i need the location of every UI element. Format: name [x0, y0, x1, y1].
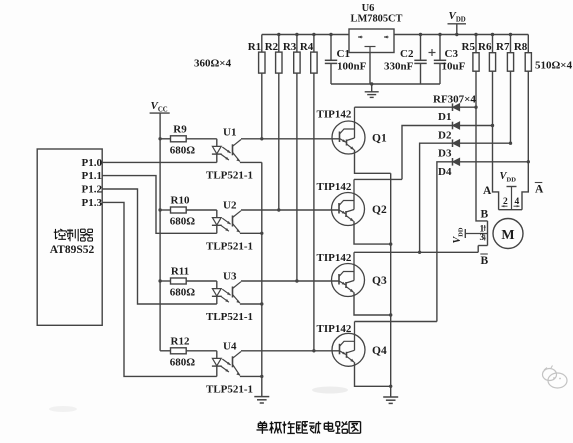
label VCC	[151, 100, 168, 114]
resistor R12 680 ohm	[160, 348, 217, 359]
ground symbol below optocouplers	[254, 397, 269, 403]
capacitor C1	[325, 35, 337, 85]
resistor R8 510 ohm	[525, 35, 531, 72]
svg-text:R6: R6	[478, 41, 492, 53]
pin 2 with arrow	[502, 197, 509, 207]
wire U4 collector row to Q4 base	[241, 350, 340, 352]
transistor Q1 TIP142	[332, 107, 391, 173]
wire Q2 collector row	[354, 178, 402, 180]
svg-text:LM7805CT: LM7805CT	[351, 14, 403, 25]
svg-text:C2: C2	[400, 48, 414, 60]
label RF307 x4	[433, 94, 476, 106]
svg-text:TLP521-1: TLP521-1	[206, 240, 253, 252]
optocoupler U3 TLP521-1 LED	[212, 289, 222, 304]
svg-text:D1: D1	[438, 111, 451, 123]
wire U1 collector row to Q1 base	[241, 138, 340, 140]
wire opto emitter rail	[261, 162, 263, 396]
svg-text:TIP142: TIP142	[317, 252, 352, 264]
svg-text:R12: R12	[171, 335, 190, 347]
label U3	[223, 271, 237, 283]
optocoupler U2 light arrows	[221, 218, 232, 232]
svg-text:P1.0: P1.0	[82, 157, 103, 169]
label LM7805CT	[351, 14, 403, 25]
svg-text:TLP521-1: TLP521-1	[206, 383, 253, 395]
svg-text:U6: U6	[362, 3, 375, 14]
wire D3 row and drop to Q3 collector row	[420, 143, 511, 252]
optocoupler U4 phototransistor	[233, 352, 242, 377]
wire capacitor ground bus	[331, 83, 440, 85]
transistor Q2 TIP142	[332, 179, 391, 244]
svg-text:D4: D4	[438, 166, 452, 178]
wire U2 collector row to Q2 base	[241, 209, 340, 211]
diode D2 RF307	[453, 122, 460, 130]
svg-text:D2: D2	[438, 130, 452, 142]
resistor R4 360 ohm	[311, 35, 317, 351]
label U1	[223, 126, 236, 138]
label R9	[173, 123, 187, 135]
resistor R1 360 ohm	[259, 35, 265, 139]
transistor Q4 TIP142	[332, 322, 391, 387]
background smudge near ground	[312, 387, 348, 394]
diode D3 RF307	[453, 139, 460, 147]
label P1.0	[82, 157, 103, 169]
svg-text:10uF: 10uF	[442, 61, 466, 73]
label controller (kongzhiqi)	[54, 229, 93, 241]
label D3	[438, 148, 452, 160]
svg-text:R1: R1	[248, 41, 261, 53]
label 680ohm U4	[170, 356, 196, 368]
svg-text:B: B	[481, 255, 489, 267]
power VDD (top)	[448, 24, 467, 35]
svg-text:U3: U3	[223, 271, 237, 283]
background smudge bottom left	[49, 406, 77, 412]
label U2	[223, 200, 237, 212]
diode D1 RF307	[453, 103, 460, 111]
svg-text:R3: R3	[283, 41, 297, 53]
svg-text:R4: R4	[300, 41, 314, 53]
svg-text:TIP142: TIP142	[317, 181, 352, 193]
svg-text:510Ω×4: 510Ω×4	[535, 60, 573, 72]
junction dots on Q emitter rail	[389, 242, 392, 388]
wire R7 column down to D3 row	[510, 71, 512, 143]
optocoupler U1 light arrows	[221, 147, 232, 161]
label TLP521-1 U1	[206, 169, 253, 181]
svg-text:D3: D3	[438, 148, 452, 160]
label R5	[462, 41, 476, 53]
label R1	[248, 41, 261, 53]
wire U3 collector row to Q3 base	[241, 280, 340, 282]
pin 3 with arrow	[480, 233, 486, 243]
label VDD top	[449, 10, 466, 24]
svg-text:R2: R2	[265, 41, 279, 53]
label C2	[400, 48, 414, 60]
resistor R9 680 ohm	[160, 136, 217, 147]
resistor R7 510 ohm	[507, 35, 513, 72]
optocoupler U1 phototransistor	[233, 140, 242, 163]
pin 4 with arrow	[514, 197, 520, 207]
svg-text:P1.1: P1.1	[82, 170, 102, 182]
label 680ohm U3	[170, 287, 196, 299]
junction dot D3 on Bbar row	[418, 251, 421, 254]
wire P1.2 to U3	[102, 189, 217, 304]
label U6	[362, 3, 375, 14]
label 510ohm x4	[535, 60, 573, 72]
wire D4 row and drop to Q4 collector row	[437, 162, 528, 322]
svg-text:TIP142: TIP142	[317, 323, 352, 335]
diode D4 RF307	[453, 158, 460, 166]
svg-text:680Ω: 680Ω	[170, 287, 196, 299]
ground symbol below U6	[365, 84, 379, 97]
resistor R3 360 ohm	[294, 35, 300, 282]
label P1.2	[82, 184, 103, 196]
svg-text:C3: C3	[445, 48, 459, 60]
motor M	[493, 219, 523, 249]
transistor Q3 TIP142	[332, 252, 391, 315]
label TLP521-1 U4	[206, 383, 253, 395]
junction dots R1-R4 bottoms	[260, 137, 316, 352]
label R8	[514, 41, 528, 53]
voltage regulator U6 LM7805CT	[349, 29, 394, 53]
wire top rail right segment (U6 to R8 column)	[394, 34, 528, 36]
svg-text:360Ω×4: 360Ω×4	[194, 58, 232, 70]
junction dots on top rails	[277, 33, 512, 36]
junction dots diode rows	[474, 106, 530, 164]
label R11	[171, 266, 189, 278]
wire U2 emitter to common rail	[240, 232, 262, 234]
optocoupler U2 phototransistor	[233, 211, 242, 234]
label P1.3	[82, 197, 103, 209]
label D4	[438, 166, 452, 178]
label Q2	[372, 204, 387, 216]
optocoupler U3 light arrows	[221, 289, 232, 303]
label D1	[438, 111, 451, 123]
wire U4 emitter to common rail	[240, 375, 262, 377]
wire VCC rail down to R12	[159, 139, 161, 351]
svg-text:R9: R9	[173, 123, 187, 135]
capacitor C3 (electrolytic)	[429, 35, 447, 85]
optocoupler U1 TLP521-1 LED	[212, 146, 222, 162]
svg-text:Q2: Q2	[372, 204, 387, 216]
wire Q4 collector row	[355, 321, 437, 323]
svg-text:R11: R11	[171, 266, 189, 278]
label VDD phase A	[500, 171, 517, 184]
label TIP142 Q3	[317, 252, 352, 264]
pin 1 with arrow	[480, 225, 486, 235]
label 360ohm x4	[194, 58, 232, 70]
svg-text:A: A	[535, 184, 544, 196]
watermark doodle	[543, 366, 568, 389]
svg-text:U4: U4	[223, 340, 237, 352]
ground symbol below transistors	[383, 397, 398, 403]
svg-text:R8: R8	[514, 41, 528, 53]
label R12	[171, 335, 190, 347]
wire U3 emitter to common rail	[240, 303, 262, 305]
label Abar	[535, 183, 544, 196]
caption unipolar drive circuit diagram	[257, 421, 361, 433]
label 680ohm U1	[170, 144, 196, 156]
wire U1 emitter to common rail	[240, 161, 262, 163]
label R2	[265, 41, 279, 53]
optocoupler U4 TLP521-1 LED	[212, 358, 222, 376]
label R7	[496, 41, 510, 53]
resistor R5 510 ohm	[473, 35, 479, 72]
label TIP142 Q1	[317, 109, 352, 121]
svg-text:U2: U2	[223, 200, 237, 212]
connector winding A / Abar with center tap	[499, 187, 522, 210]
wire D2 row and drop to Q2 collector	[402, 126, 493, 180]
resistor R11 680 ohm	[160, 278, 217, 289]
label 10uF	[442, 61, 466, 73]
resistor R2 360 ohm	[276, 35, 282, 211]
optocoupler U3 phototransistor	[233, 282, 242, 305]
connector winding B / Bbar with center tap	[465, 221, 487, 252]
svg-text:R10: R10	[171, 195, 190, 207]
label U4	[223, 340, 237, 352]
label R4	[300, 41, 314, 53]
junction dots on VCC rail	[158, 137, 161, 283]
svg-text:680Ω: 680Ω	[170, 216, 196, 228]
svg-text:TLP521-1: TLP521-1	[206, 169, 253, 181]
svg-text:Q4: Q4	[372, 345, 387, 357]
label 680ohm U2	[170, 216, 196, 228]
label A	[483, 185, 492, 197]
wire common emitter rail of Q1-Q4	[390, 173, 392, 396]
svg-text:R5: R5	[462, 41, 476, 53]
label P1.1	[82, 170, 102, 182]
svg-text:M: M	[501, 228, 514, 243]
label 100nF	[337, 61, 367, 73]
wire P1.1 to U2	[102, 176, 217, 234]
label B	[481, 209, 489, 221]
svg-text:Q3: Q3	[372, 275, 387, 287]
label TLP521-1 U2	[206, 240, 253, 252]
wire R5 column down to winding B lead	[476, 71, 488, 221]
wire U6 ground pin to capacitor ground bus	[369, 53, 371, 85]
svg-text:P1.3: P1.3	[82, 197, 103, 209]
label 330nF	[384, 61, 414, 73]
wire R8 column down to winding Abar lead	[522, 71, 528, 210]
label TIP142 Q4	[317, 323, 352, 335]
wire Q3 collector row to Bbar	[354, 251, 478, 253]
svg-text:U1: U1	[223, 126, 236, 138]
junction ground bus	[370, 82, 373, 85]
power VCC symbol	[150, 113, 170, 139]
label Bbar	[480, 254, 488, 267]
resistor R6 510 ohm	[489, 35, 495, 72]
svg-text:R7: R7	[496, 41, 510, 53]
label D2	[438, 130, 452, 142]
label R6	[478, 41, 492, 53]
svg-text:B: B	[481, 209, 489, 221]
label AT89S52	[50, 244, 95, 256]
svg-text:330nF: 330nF	[384, 61, 414, 73]
svg-text:Q1: Q1	[372, 133, 387, 145]
svg-text:RF307×4: RF307×4	[433, 94, 476, 106]
capacitor C2	[414, 35, 426, 85]
label R3	[283, 41, 297, 53]
label TLP521-1 U3	[206, 311, 253, 323]
optocoupler U4 light arrows	[221, 359, 232, 373]
controller box AT89S52	[37, 149, 102, 325]
svg-text:AT89S52: AT89S52	[50, 244, 95, 256]
label Q1	[372, 133, 387, 145]
wire P1.0 to U1	[102, 161, 217, 163]
label C3	[445, 48, 459, 60]
junction dots on opto emitter rail	[260, 232, 263, 378]
wire D1 row (Q1 collector to R5 node)	[355, 106, 477, 108]
svg-text:A: A	[483, 185, 492, 197]
resistor R10 680 ohm	[160, 207, 217, 218]
label R10	[171, 195, 190, 207]
svg-text:680Ω: 680Ω	[170, 356, 196, 368]
svg-text:P1.2: P1.2	[82, 184, 103, 196]
svg-text:TIP142: TIP142	[317, 109, 352, 121]
wire R6 column down to winding A lead	[493, 71, 499, 210]
wire P1.3 to U4	[102, 202, 217, 376]
svg-text:680Ω: 680Ω	[170, 144, 196, 156]
optocoupler U2 TLP521-1 LED	[212, 218, 222, 234]
svg-text:100nF: 100nF	[337, 61, 367, 73]
label TIP142 Q2	[317, 181, 352, 193]
label Q4	[372, 345, 387, 357]
wire top rail left segment (input rail to U6)	[262, 34, 349, 36]
label C1	[337, 48, 350, 60]
svg-text:C1: C1	[337, 48, 350, 60]
label Q3	[372, 275, 387, 287]
svg-text:TLP521-1: TLP521-1	[206, 311, 253, 323]
label VDD phase B	[452, 227, 465, 243]
